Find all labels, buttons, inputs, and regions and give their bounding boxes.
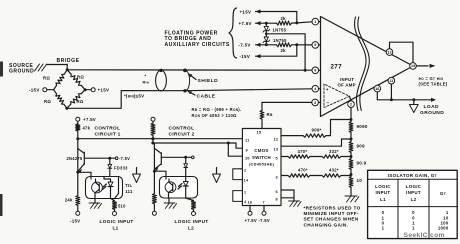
svg-text:510: 510	[118, 203, 126, 208]
svg-text:13: 13	[274, 147, 279, 151]
svg-text:FD333: FD333	[114, 166, 128, 171]
svg-text:-7.5V: -7.5V	[239, 43, 251, 48]
svg-text:332*: 332*	[329, 149, 339, 154]
svg-text:3: 3	[276, 176, 278, 180]
svg-text:LOGIC: LOGIC	[406, 184, 422, 189]
svg-text:2: 2	[244, 169, 246, 173]
svg-text:eO = GT eIN: eO = GT eIN	[419, 76, 444, 81]
svg-text:OF AMP: OF AMP	[338, 83, 356, 88]
svg-text:10: 10	[245, 156, 250, 160]
svg-text:RON OF 4053 > 110Ω: RON OF 4053 > 110Ω	[192, 113, 238, 118]
svg-text:(CD4053AE): (CD4053AE)	[249, 162, 274, 167]
svg-text:RΩ: RΩ	[43, 76, 50, 81]
svg-text:SeekIC.com: SeekIC.com	[404, 232, 445, 239]
svg-text:14: 14	[244, 178, 249, 182]
svg-text:-15V: -15V	[29, 87, 40, 92]
svg-text:+15V: +15V	[98, 87, 110, 92]
svg-text:1000: 1000	[438, 226, 449, 231]
svg-text:LOGIC INPUT: LOGIC INPUT	[100, 219, 134, 224]
svg-text:GROUND: GROUND	[9, 69, 34, 75]
svg-text:+15V: +15V	[240, 9, 252, 14]
svg-text:*RESISTORS USED TO: *RESISTORS USED TO	[304, 205, 361, 210]
svg-text:LOAD: LOAD	[424, 104, 440, 110]
svg-text:1N755: 1N755	[273, 38, 287, 43]
svg-text:CIRCUIT 2: CIRCUIT 2	[169, 132, 195, 138]
svg-text:ISOLATOR GAIN, GT: ISOLATOR GAIN, GT	[388, 173, 438, 178]
svg-text:BRIDGE: BRIDGE	[57, 58, 80, 64]
svg-text:6: 6	[276, 190, 278, 194]
svg-text:MINIMIZE INPUT OFF-: MINIMIZE INPUT OFF-	[304, 211, 359, 216]
svg-text:1N755: 1N755	[273, 27, 287, 32]
svg-text:2k: 2k	[281, 16, 287, 21]
svg-text:*|eIN|≤5V: *|eIN|≤5V	[124, 93, 144, 98]
svg-text:-15V: -15V	[240, 54, 251, 59]
svg-text:11: 11	[245, 138, 250, 142]
svg-text:INPUT: INPUT	[340, 77, 354, 82]
svg-text:RΩ: RΩ	[44, 99, 51, 104]
svg-text:RΩ: RΩ	[77, 75, 84, 80]
svg-text:+7.5V: +7.5V	[239, 21, 252, 26]
svg-text:1: 1	[412, 226, 415, 231]
svg-text:16: 16	[248, 201, 253, 205]
svg-text:10: 10	[357, 178, 363, 183]
svg-text:(SEE TABLE): (SEE TABLE)	[419, 82, 448, 87]
svg-text:GT: GT	[440, 191, 447, 196]
svg-text:47k: 47k	[83, 126, 91, 131]
svg-text:LOGIC: LOGIC	[375, 184, 391, 189]
svg-text:909: 909	[357, 143, 366, 148]
svg-text:CABLE: CABLE	[197, 93, 216, 99]
svg-text:CONTROL: CONTROL	[95, 125, 121, 131]
svg-text:909*: 909*	[312, 128, 322, 133]
svg-text:L1: L1	[113, 226, 119, 231]
svg-text:8: 8	[276, 198, 278, 202]
svg-text:INPUT: INPUT	[406, 190, 421, 195]
svg-text:2N4275: 2N4275	[66, 156, 82, 161]
svg-text:-7.5V: -7.5V	[119, 156, 130, 161]
svg-text:RB: RB	[267, 112, 273, 117]
svg-text:SHIELD: SHIELD	[198, 78, 219, 84]
svg-text:-7.5V: -7.5V	[259, 218, 270, 223]
svg-text:CMOS: CMOS	[254, 148, 268, 153]
svg-text:5: 5	[276, 157, 278, 161]
svg-text:0: 0	[382, 210, 385, 215]
svg-text:15: 15	[257, 130, 262, 134]
svg-text:SWITCH: SWITCH	[252, 155, 271, 160]
svg-text:GROUND: GROUND	[420, 110, 444, 116]
svg-text:9: 9	[246, 148, 248, 152]
svg-text:+7.5V: +7.5V	[245, 218, 257, 223]
svg-text:AUXILLIARY CIRCUITS: AUXILLIARY CIRCUITS	[165, 42, 230, 48]
svg-text:1: 1	[446, 210, 449, 215]
svg-text:CHANGING GAIN.: CHANGING GAIN.	[304, 222, 349, 227]
svg-text:RB = RΩ - (999 + RON).: RB = RΩ - (999 + RON).	[192, 107, 242, 112]
svg-text:INPUT: INPUT	[376, 190, 391, 195]
svg-text:0: 0	[412, 210, 415, 215]
svg-text:1: 1	[382, 226, 385, 231]
svg-text:RIN: RIN	[143, 81, 150, 85]
svg-text:90.9: 90.9	[357, 161, 367, 166]
svg-text:TIL: TIL	[125, 183, 132, 188]
svg-text:12: 12	[274, 137, 279, 141]
svg-text:2k: 2k	[281, 48, 287, 53]
svg-text:−: −	[326, 102, 329, 107]
svg-text:+: +	[326, 88, 329, 93]
svg-text:SET CHANGES WHEN: SET CHANGES WHEN	[304, 217, 359, 222]
svg-text:RΩ: RΩ	[77, 99, 84, 104]
svg-text:LOGIC INPUT: LOGIC INPUT	[175, 219, 209, 224]
svg-text:L1: L1	[380, 197, 386, 202]
svg-text:277: 277	[331, 64, 343, 71]
svg-text:+7.5V: +7.5V	[83, 117, 96, 122]
svg-text:24k: 24k	[65, 198, 73, 203]
svg-text:CIRCUIT 1: CIRCUIT 1	[95, 132, 121, 138]
svg-text:1: 1	[244, 190, 246, 194]
svg-text:CONTROL: CONTROL	[169, 125, 195, 131]
svg-text:470*: 470*	[298, 167, 308, 172]
svg-text:L2: L2	[188, 226, 194, 231]
svg-text:-15V: -15V	[70, 218, 80, 223]
svg-text:7: 7	[263, 201, 265, 205]
svg-text:*: *	[145, 74, 147, 79]
svg-text:L2: L2	[411, 197, 417, 202]
svg-text:470*: 470*	[298, 149, 308, 154]
svg-text:9090: 9090	[357, 124, 368, 129]
svg-text:111: 111	[125, 189, 133, 194]
svg-text:432*: 432*	[329, 167, 339, 172]
